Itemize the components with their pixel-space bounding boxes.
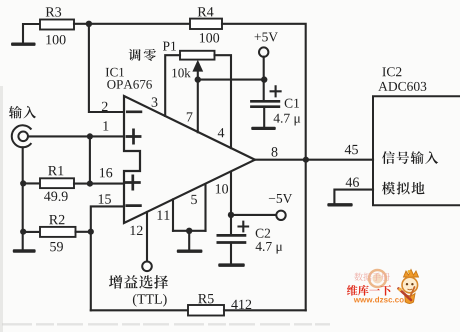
junction pin10 / -5V (228, 212, 234, 218)
wire bottom to R5 (91, 309, 188, 311)
label C1 (285, 99, 299, 108)
op-amp IC1 OPA676 triangle (124, 96, 255, 223)
wire C1 to ground (263, 107, 265, 127)
node A junction (86, 21, 92, 27)
wire IC2 pin 46 to ground (334, 190, 373, 203)
ground (C2) (218, 263, 245, 267)
ground (left of R3) (11, 43, 36, 46)
wire pin 5 down (204, 185, 206, 231)
pin 10 (216, 184, 228, 193)
wire pin 10 down to C2 (230, 172, 232, 235)
wire junction down to pin 16 line (89, 136, 91, 183)
label tiaoling (zero-adjust) (129, 49, 156, 61)
junction wiper/+5V line (195, 76, 201, 82)
label R3 (46, 7, 61, 16)
junction pin1/pin16 tie (upper) (87, 133, 93, 139)
op-amp minus symbol (pin2) (127, 110, 141, 113)
value 100 (R4) (200, 33, 219, 42)
resistor R4 (190, 19, 222, 29)
scan smudge bottom (2, 323, 330, 325)
pin 3 (152, 97, 158, 106)
value 59 (50, 242, 63, 251)
pin 4 (218, 128, 225, 137)
wire bar pins 11-5 (173, 230, 206, 232)
junction pin16 line (lower) (87, 181, 93, 187)
wire junction to -5V terminal (231, 214, 276, 216)
resistor R1 (40, 178, 74, 188)
wire bus to R2 (23, 231, 40, 233)
wire junction to ground (188, 231, 190, 250)
label C2 (256, 229, 270, 238)
pin 46 (346, 178, 359, 187)
wire output to IC2 pin 45 (306, 159, 373, 161)
terminal gain select (142, 262, 152, 272)
wire BNC shell down (ground bus) (22, 147, 24, 249)
wire +5V down to C1 (263, 57, 265, 100)
label R1 (48, 166, 63, 175)
wire R2 to pin15 node (76, 231, 91, 233)
wire P1 left to pin 3 (165, 55, 180, 116)
resistor R2 (40, 227, 76, 237)
watermark url (354, 297, 411, 303)
ground (C1) (251, 127, 276, 130)
label xinhao shuru (signal input) (382, 151, 438, 164)
capacitor C1 plus sign (271, 86, 281, 96)
label input (shuru) (9, 106, 36, 119)
capacitor C2 plates (217, 235, 247, 242)
op-amp plus symbol (pin1) (127, 130, 140, 143)
capacitor C1 plates (250, 101, 280, 106)
junction ground bus / R2 (20, 229, 26, 235)
wire wiper junction to +5V rail (198, 79, 264, 81)
wire wiper to pin 7 (197, 70, 199, 132)
IC2 ADC603 box (373, 96, 460, 205)
wire bus to R1 (23, 182, 40, 184)
label (TTL) (133, 294, 167, 307)
pin 8 (272, 147, 278, 156)
junction pins 11/5 (186, 228, 192, 234)
op-amp plus symbol (pin16) (126, 176, 139, 189)
wire C2 to ground (230, 243, 232, 264)
value 10k (172, 68, 190, 77)
wire node A to R4 (89, 23, 190, 25)
value 4.7u (C1) (274, 114, 301, 126)
pin 16 (100, 168, 112, 177)
label +5V (255, 32, 278, 41)
label OPA676 (107, 80, 152, 89)
wire R1 to pin 16 (74, 183, 124, 185)
ground (pin 46) (327, 203, 352, 206)
wire pin 12 down (146, 212, 148, 262)
wire P1 right to pin 4 (215, 55, 232, 148)
label R4 (198, 7, 214, 16)
junction R2/pin15/R5 (88, 229, 94, 235)
value 100 (R3) (46, 35, 65, 44)
pin 11 (158, 210, 170, 219)
watermark weiku yixia (347, 285, 391, 296)
capacitor C2 plus sign (239, 222, 249, 232)
connector J1 center pin (18, 132, 28, 142)
label ADC603 (378, 82, 426, 91)
label IC1 (106, 68, 124, 77)
pin 15 (99, 194, 111, 203)
pin 7 (187, 112, 193, 121)
value 4.7u (C2) (256, 242, 283, 254)
P1 wiper arrow (192, 60, 203, 72)
wire ground1 to R3 (23, 24, 40, 43)
op-amp minus symbol (pin15) (127, 204, 141, 207)
wire BNC pin to op-amp pin 1 (28, 135, 124, 137)
wire output down to R5 wire (305, 160, 307, 311)
pin 12 (131, 226, 143, 235)
wire R3 to node A (74, 23, 89, 25)
connector J1 shell (BNC outer arc) (12, 125, 32, 147)
terminal +5V (259, 47, 268, 56)
output node pin 8 (303, 157, 309, 163)
pin 45 (345, 145, 358, 154)
label R2 (49, 215, 64, 224)
pin 1 (103, 121, 108, 130)
ground (pins 11/5) (177, 250, 203, 253)
value 49.9 (44, 192, 68, 201)
wire pin 11 down (172, 199, 174, 230)
pin 5 (191, 195, 197, 204)
label moni di (analog ground) (382, 182, 425, 195)
ground (input bus) (13, 249, 36, 252)
label zengyi xuanze (gain select) (109, 275, 168, 289)
label R5 (198, 294, 213, 303)
label P1 (163, 42, 176, 51)
value 412 (231, 300, 251, 309)
wire pin 8 (op-amp output) (255, 159, 306, 161)
watermark faded text (354, 273, 389, 281)
junction ground bus / R1 (20, 180, 26, 186)
wire node A to pin 2 (89, 24, 124, 112)
watermark mascot (398, 270, 418, 304)
wire pin 15 to R2 node and down to R5 (91, 206, 124, 310)
wire R4 to output (feedback) (222, 24, 306, 160)
resistor R3 (40, 20, 74, 30)
watermark faded logo circle (369, 270, 386, 287)
resistor R5 (188, 305, 224, 316)
junction +5V rail (261, 76, 267, 82)
terminal -5V (276, 211, 285, 220)
scan shadow left edge (0, 86, 3, 332)
wire R5 to output node (224, 309, 306, 311)
label IC2 (382, 67, 401, 76)
pin 2 (102, 102, 108, 111)
potentiometer P1 body (180, 51, 215, 60)
label -5V (269, 194, 292, 203)
